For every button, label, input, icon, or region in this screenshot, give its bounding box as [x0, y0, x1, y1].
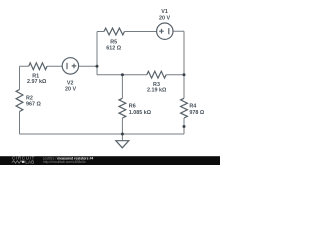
svg-text:20 V: 20 V [159, 16, 170, 22]
svg-text:V1: V1 [161, 9, 168, 15]
svg-text:967 Ω: 967 Ω [26, 101, 41, 107]
svg-text:LAB: LAB [25, 159, 34, 164]
svg-text:978 Ω: 978 Ω [189, 110, 204, 116]
svg-text:20 V: 20 V [65, 87, 76, 93]
svg-text:2.97 kΩ: 2.97 kΩ [27, 79, 47, 85]
svg-text:612 Ω: 612 Ω [106, 45, 121, 51]
svg-text:R6: R6 [129, 104, 136, 110]
svg-text:R4: R4 [189, 104, 196, 110]
svg-text:1.085 kΩ: 1.085 kΩ [129, 110, 152, 116]
svg-text:R2: R2 [26, 95, 33, 101]
svg-text:2.19 kΩ: 2.19 kΩ [147, 88, 167, 94]
svg-text:V2: V2 [67, 80, 74, 86]
svg-text:http://circuitlab.com/c838c5v: http://circuitlab.com/c838c5v [43, 160, 86, 164]
